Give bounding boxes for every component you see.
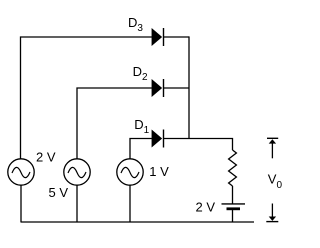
svg-text:2 V: 2 V [196, 200, 216, 215]
svg-text:D1: D1 [134, 117, 149, 136]
wire source V3 bottom [129, 185, 131, 222]
wire battery to ground rail [232, 209, 234, 222]
svg-text:D3: D3 [128, 15, 143, 34]
V0 bottom arrow down [269, 204, 276, 221]
battery short plate [227, 207, 241, 210]
wire source V2 bottom [76, 185, 78, 222]
diode D1 [152, 130, 164, 148]
V0 top reference bar [267, 137, 278, 139]
AC source V2 5V [64, 159, 90, 185]
wire source V2 top to D2 anode [77, 88, 152, 159]
battery long plate [222, 203, 246, 205]
wire source V3 top to D1 anode [130, 139, 152, 160]
wire source V1 bottom [20, 185, 22, 222]
V0 top arrow up [269, 139, 276, 158]
svg-text:2 V: 2 V [36, 149, 56, 164]
wire D2 cathode to bus [164, 87, 190, 89]
V0 bottom reference bar [266, 221, 278, 223]
AC source V3 1V [117, 159, 143, 185]
wire D1 cathode to resistor top corner [164, 139, 233, 151]
wire source V1 top to D3 anode [21, 37, 152, 159]
AC source V1 2V [8, 159, 34, 185]
wire resistor to battery [232, 186, 234, 204]
svg-text:D2: D2 [133, 64, 148, 83]
wire D3 cathode to bus [164, 36, 190, 38]
wire bus vertical [188, 36, 190, 138]
diode D2 [152, 79, 164, 97]
svg-text:V0: V0 [268, 172, 283, 192]
resistor R [229, 150, 237, 186]
bottom rail wire [21, 221, 255, 223]
svg-text:1 V: 1 V [149, 164, 169, 179]
svg-text:5 V: 5 V [49, 185, 69, 200]
diode D3 [152, 28, 164, 46]
